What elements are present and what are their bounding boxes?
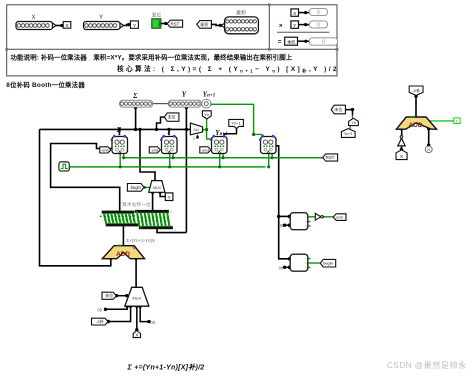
node tunnel Yn b xyxy=(349,118,359,125)
wire mux2 select xyxy=(116,295,127,297)
svg-text:<: < xyxy=(305,266,307,270)
svg-text:begin: begin xyxy=(131,185,142,190)
svg-text:-X补: -X补 xyxy=(412,87,420,93)
svg-text:MUX: MUX xyxy=(153,186,162,190)
wire feedback loop to adder A xyxy=(40,129,111,265)
wire adder1 output to splitter1 xyxy=(122,226,124,245)
svg-text:0: 0 xyxy=(317,23,320,29)
wire xyxy=(124,24,131,27)
register SIGMA xyxy=(111,126,128,154)
wire lowbits2 tunnel link xyxy=(345,110,352,115)
wire adder2 leg to NOT xyxy=(401,129,403,136)
node tunnel X a xyxy=(396,150,407,160)
transistor NOT2 xyxy=(315,213,323,220)
wire Yn+1 probe to counter register xyxy=(211,104,262,137)
svg-text:Y: Y xyxy=(167,127,172,135)
svg-text:00: 00 xyxy=(150,320,156,325)
wire register clock stub xyxy=(219,154,221,167)
wire xyxy=(161,23,167,25)
node display X value xyxy=(291,8,328,16)
node tunnel negX a xyxy=(409,86,423,95)
wire shifted result to sigma register xyxy=(51,144,120,211)
svg-text:01: 01 xyxy=(427,148,431,152)
node tunnel Y xyxy=(130,21,138,29)
wire to comparator1 xyxy=(279,215,291,217)
svg-text:>: > xyxy=(305,216,307,220)
node panel frame xyxy=(5,3,338,76)
register Y xyxy=(160,127,177,153)
svg-text:Yn+1: Yn+1 xyxy=(344,132,353,136)
node tunnel Y init xyxy=(165,193,173,201)
svg-text:begin: begin xyxy=(323,261,333,266)
svg-text:乘积: 乘积 xyxy=(236,10,246,17)
svg-text:Σ+(Yn+1-Yn)X: Σ+(Yn+1-Yn)X xyxy=(127,238,155,243)
svg-text:末位: 末位 xyxy=(168,114,176,120)
node product output pins xyxy=(221,10,258,34)
svg-text:ADD: ADD xyxy=(409,122,423,129)
svg-text:乘积: 乘积 xyxy=(200,21,208,27)
svg-text:Y: Y xyxy=(168,195,171,200)
node tunnel end 3 xyxy=(200,147,211,153)
node splitter 2 xyxy=(135,210,173,229)
svg-text:8: 8 xyxy=(170,210,172,214)
node tunnel negX b xyxy=(92,318,109,325)
wire main bus xyxy=(40,128,191,130)
svg-text:末位: 末位 xyxy=(105,292,113,298)
svg-text:RST: RST xyxy=(171,21,180,26)
register YN+1 xyxy=(210,129,228,154)
svg-text:end: end xyxy=(202,147,209,152)
node tunnel end 2 xyxy=(149,147,160,153)
svg-text:end: end xyxy=(152,147,159,152)
node tunnel lowbits b xyxy=(102,292,116,299)
svg-text:=: = xyxy=(305,220,307,224)
svg-text:=: = xyxy=(278,39,282,46)
comparator U1 xyxy=(290,213,308,230)
svg-text:×: × xyxy=(279,23,283,30)
wire adder2 leg to const01 xyxy=(428,129,430,146)
svg-text:功能说明: 补码一位乘法器 乘积=X*Y。要求采用补码一位乘: 功能说明: 补码一位乘法器 乘积=X*Y。要求采用补码一位乘法实现，最终结果输出… xyxy=(11,53,293,62)
svg-text:X: X xyxy=(31,15,35,21)
wire mux1 to Y init xyxy=(160,192,165,196)
svg-text:末位: 末位 xyxy=(334,106,342,112)
wire bus to begin mux xyxy=(140,129,155,180)
svg-text:RST: RST xyxy=(326,155,335,160)
svg-text:Yn: Yn xyxy=(204,112,209,117)
wire begin tunnel to mux1 xyxy=(144,186,150,188)
op-amp ADD1 xyxy=(102,245,144,259)
wire comparator1 stub b xyxy=(308,221,311,223)
wire register reset stub xyxy=(271,154,273,158)
node tunnel lowbits c xyxy=(331,105,345,114)
op-amp ADD2 xyxy=(396,116,436,129)
svg-text:算术右移一位: 算术右移一位 xyxy=(122,201,151,208)
svg-text:Y: Y xyxy=(182,91,187,99)
wire end tunnel stub xyxy=(111,149,112,151)
node X input pins xyxy=(16,15,56,30)
svg-text:8: 8 xyxy=(136,211,138,215)
wire register clock stub xyxy=(169,154,171,167)
node tunnel Yn+1 a xyxy=(229,119,244,128)
svg-text:MUX: MUX xyxy=(132,296,141,301)
svg-text:>: > xyxy=(305,257,307,261)
node tunnel lowbits a xyxy=(164,113,179,121)
svg-text:Σ: Σ xyxy=(116,126,122,134)
node tunnel X xyxy=(63,22,71,30)
wire mux2 output to adder1 xyxy=(135,258,137,287)
wire mux1 leg to splitter2 xyxy=(152,192,154,210)
node carry label xyxy=(454,118,460,124)
node tunnel begin 1 xyxy=(127,184,144,192)
svg-text:<: < xyxy=(305,225,307,229)
mux SEL xyxy=(190,123,202,141)
svg-text:end: end xyxy=(102,147,109,152)
wire comparator2 stub a xyxy=(308,258,311,260)
wire end tunnel stub xyxy=(160,149,161,151)
wire Y vertical bus xyxy=(185,107,187,233)
svg-text:8位补码 Booth一位乘法器: 8位补码 Booth一位乘法器 xyxy=(6,80,85,89)
svg-text:复位: 复位 xyxy=(152,12,162,19)
svg-text:Σ: Σ xyxy=(132,92,138,100)
wire mux2 input X xyxy=(136,306,138,330)
node tunnel RST b xyxy=(323,154,338,161)
svg-text:Σ +=(Yn+1-Yn)[X]补)/2: Σ +=(Yn+1-Yn)[X]补)/2 xyxy=(127,363,205,372)
node tunnel end out xyxy=(333,214,346,221)
wire Y register top stub xyxy=(168,129,170,135)
wire Yn2 to Yn+1 tunnel xyxy=(349,125,351,130)
node tunnel end 1 xyxy=(100,147,111,153)
mux MUX2 xyxy=(125,287,149,306)
register COUNT xyxy=(261,137,277,154)
wire lowbits staircase xyxy=(157,117,165,129)
transistor NOT1 xyxy=(398,136,405,146)
svg-text:00: 00 xyxy=(97,307,103,312)
svg-text:乘积: 乘积 xyxy=(287,39,295,44)
svg-text:end: end xyxy=(336,215,343,220)
comparator U2 xyxy=(290,254,308,271)
mux MUX1 xyxy=(149,181,165,193)
svg-text:00: 00 xyxy=(279,265,284,270)
node Y probe row xyxy=(168,91,201,108)
wire adder2 carry out xyxy=(428,120,454,122)
svg-text:Yn+1: Yn+1 xyxy=(232,122,241,126)
wire comparator1 to NOT xyxy=(308,216,315,218)
node tunnel RST xyxy=(167,20,182,27)
svg-text:Sel: Sel xyxy=(193,128,198,132)
svg-text:Y: Y xyxy=(99,15,103,21)
node tunnel 乘积 xyxy=(197,21,212,29)
wire register clock stub xyxy=(268,154,270,167)
node clock xyxy=(59,162,69,171)
svg-text:CSDN @果然是帅永: CSDN @果然是帅永 xyxy=(387,360,467,370)
node tunnel Yn+1 b xyxy=(341,129,355,138)
wire splitter2 left tick xyxy=(133,215,135,217)
node const 01 xyxy=(425,146,432,153)
wire Yn tunnel down xyxy=(207,119,212,139)
svg-text:Yn: Yn xyxy=(351,121,356,125)
wire probe link xyxy=(153,103,169,105)
wire const08 to comparator1 xyxy=(284,224,290,226)
wire negX tunnel to adder2 xyxy=(415,95,417,117)
wire fraction line xyxy=(277,31,329,33)
wire counter bus xyxy=(275,146,290,259)
svg-text:X: X xyxy=(135,333,138,338)
node display product value xyxy=(285,37,338,45)
node tunnel begin out xyxy=(320,259,335,267)
wire comparator2 to begin tunnel xyxy=(308,262,321,264)
node junctions green xyxy=(119,103,324,218)
wire X tunnel to NOT xyxy=(401,146,403,150)
svg-text:X: X xyxy=(400,154,403,159)
wire sigma probe stub xyxy=(135,107,137,129)
svg-text:1: 1 xyxy=(174,228,176,232)
node display Y value xyxy=(291,21,328,29)
node junctions black xyxy=(104,95,431,332)
wire lowbits2 green tip xyxy=(352,115,354,119)
wire mux2 input negX xyxy=(108,306,131,321)
svg-text:0: 0 xyxy=(317,10,320,16)
wire end tunnel stub xyxy=(211,149,212,151)
node sigma probe row xyxy=(120,92,153,107)
wire mux2 input 00a xyxy=(105,306,128,309)
wire NOT to end tunnel xyxy=(324,216,334,218)
svg-text:08: 08 xyxy=(279,223,284,228)
wire sigma register top stub xyxy=(118,129,120,135)
svg-text:0: 0 xyxy=(322,40,325,46)
svg-text:0: 0 xyxy=(193,137,195,141)
wire splitter1 left tick xyxy=(100,215,102,217)
svg-text:ADD: ADD xyxy=(116,251,130,258)
node tunnel X b xyxy=(133,331,140,338)
wire register clock stub xyxy=(119,154,121,167)
wire reset line xyxy=(124,157,323,159)
wire comparator1 stub c xyxy=(308,225,311,227)
svg-text:1: 1 xyxy=(140,226,142,230)
node splitter 1 xyxy=(102,211,139,227)
node reset button xyxy=(152,12,162,29)
wire comparator2 stub c xyxy=(308,266,311,268)
wire xyxy=(211,24,221,25)
wire register reset stub xyxy=(172,154,174,158)
wire Yn+1 tunnel to register xyxy=(224,128,237,136)
svg-text:=: = xyxy=(305,262,307,266)
wire mux2 input 00b xyxy=(140,306,149,321)
wire clock line xyxy=(69,166,265,168)
wire const00 to comparator2 xyxy=(284,266,290,268)
wire register reset stub xyxy=(123,154,125,158)
wire sel output xyxy=(203,129,207,131)
node Y input pins xyxy=(84,15,124,30)
svg-text:-X补: -X补 xyxy=(96,319,104,324)
wire splitter2 return xyxy=(157,229,186,233)
node Yn+1 probe xyxy=(202,91,215,108)
node tunnel Yn a xyxy=(202,111,211,119)
wire register reset stub xyxy=(222,154,224,158)
wire xyxy=(56,25,63,27)
